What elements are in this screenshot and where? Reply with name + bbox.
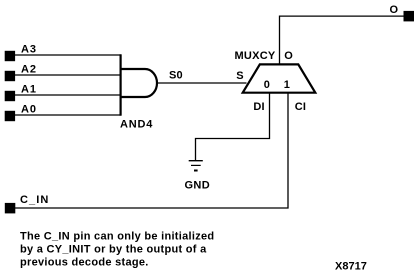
svg-text:by a CY_INIT or by the output: by a CY_INIT or by the output of a bbox=[20, 244, 207, 256]
wire A2 bbox=[10, 74, 121, 76]
svg-text:AND4: AND4 bbox=[120, 119, 153, 131]
svg-text:S: S bbox=[236, 70, 244, 82]
wire S0 bbox=[157, 70, 247, 83]
svg-text:GND: GND bbox=[185, 180, 211, 192]
svg-text:CI: CI bbox=[295, 101, 306, 113]
svg-text:A3: A3 bbox=[21, 43, 37, 55]
svg-text:A2: A2 bbox=[21, 63, 37, 75]
svg-text:O: O bbox=[390, 4, 399, 16]
svg-text:The C_IN pin can only be initi: The C_IN pin can only be initialized bbox=[20, 231, 214, 243]
input pin C_IN bbox=[5, 194, 50, 213]
svg-text:S0: S0 bbox=[169, 70, 183, 82]
svg-text:DI: DI bbox=[253, 101, 264, 113]
svg-text:O: O bbox=[284, 50, 293, 62]
input pin A1 bbox=[5, 83, 37, 101]
ground bbox=[185, 161, 211, 192]
AND gate AND4 bbox=[120, 54, 157, 130]
wire A1 bbox=[10, 94, 121, 96]
wire DI to ground bbox=[196, 93, 270, 161]
wire A3 bbox=[10, 54, 121, 56]
input pin A3 bbox=[5, 43, 37, 61]
svg-text:1: 1 bbox=[284, 79, 290, 91]
svg-text:previous decode stage.: previous decode stage. bbox=[20, 257, 149, 269]
svg-text:C_IN: C_IN bbox=[20, 194, 49, 206]
output pin O bbox=[390, 4, 415, 21]
svg-text:A1: A1 bbox=[21, 83, 37, 95]
wire A0 bbox=[10, 114, 121, 116]
svg-text:0: 0 bbox=[264, 79, 270, 91]
caption text bbox=[20, 231, 214, 269]
svg-text:MUXCY: MUXCY bbox=[235, 50, 276, 62]
input pin A2 bbox=[5, 63, 37, 81]
wire C_IN to CI bbox=[15, 93, 288, 208]
svg-text:X8717: X8717 bbox=[335, 261, 367, 273]
svg-text:A0: A0 bbox=[21, 103, 37, 115]
input pin A0 bbox=[5, 103, 37, 121]
wire O (mux output to pin) bbox=[280, 16, 404, 64]
mux MUXCY bbox=[235, 50, 316, 113]
